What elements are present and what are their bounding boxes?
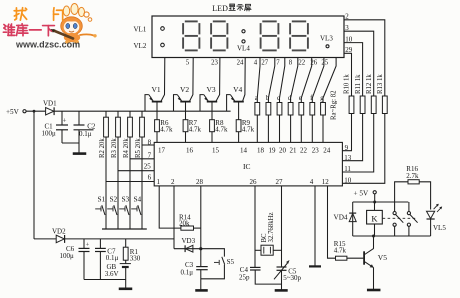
- svg-text:25: 25: [144, 162, 152, 170]
- svg-text:4.7k: 4.7k: [334, 247, 347, 255]
- ground for pin 4: [309, 265, 321, 267]
- capacitor C7: [99, 239, 101, 248]
- resistor Rg 82 segment g: [323, 58, 336, 103]
- svg-text:S2: S2: [109, 195, 117, 204]
- svg-text:12: 12: [322, 178, 330, 186]
- indicator VL2: [161, 43, 165, 47]
- svg-text:3.6V: 3.6V: [105, 270, 119, 278]
- svg-text:4.7k: 4.7k: [160, 126, 173, 134]
- wire +5V branch down to VD2: [33, 111, 35, 239]
- svg-text:15: 15: [212, 147, 220, 155]
- svg-text:g: g: [320, 95, 324, 102]
- svg-text:R5 20k: R5 20k: [135, 138, 142, 158]
- svg-text:+: +: [63, 118, 67, 125]
- svg-text:V5: V5: [378, 253, 387, 262]
- svg-text:25: 25: [321, 60, 328, 67]
- svg-text:S3: S3: [121, 195, 129, 204]
- wire relay bottom rail: [353, 235, 431, 237]
- svg-text:0.1μ: 0.1μ: [181, 268, 194, 276]
- svg-text:VD1: VD1: [43, 100, 57, 108]
- resistor R14 20k: [181, 226, 194, 230]
- svg-text:+5V: +5V: [6, 108, 20, 116]
- switch common rail: [102, 228, 147, 230]
- wire display pin to V1 collector: [161, 58, 165, 102]
- resistor R10 1k: [349, 96, 354, 114]
- svg-text:18: 18: [257, 147, 265, 155]
- svg-text:19: 19: [269, 147, 277, 155]
- svg-text:VL3: VL3: [320, 35, 333, 43]
- capacitor C2: [78, 111, 80, 125]
- svg-text:100μ: 100μ: [42, 129, 57, 137]
- wire R3 column to IC pin: [117, 137, 119, 229]
- resistor R3 20k: [117, 111, 119, 117]
- svg-text:V3: V3: [207, 85, 216, 94]
- svg-text:22: 22: [298, 60, 305, 67]
- svg-text:LED: LED: [212, 4, 228, 13]
- relay coil K: [367, 210, 383, 224]
- resistor R9 4.7k: [238, 102, 240, 120]
- wire IC pin 28 down: [200, 186, 202, 249]
- switch S5: [201, 249, 225, 257]
- svg-text:+: +: [86, 242, 90, 249]
- ground for C3: [195, 289, 208, 292]
- wire R7 to IC: [185, 132, 187, 143]
- resistor R4 20k: [129, 111, 131, 117]
- resistor R12 1k: [371, 96, 376, 114]
- wire R5 column to IC pin: [141, 137, 143, 229]
- svg-text:4: 4: [310, 178, 314, 186]
- svg-text:24: 24: [237, 60, 244, 67]
- resistor R5 20k: [141, 111, 143, 117]
- LED VL5: [427, 211, 435, 218]
- svg-text:VL5: VL5: [433, 224, 446, 232]
- resistor Rb 82 segment b: [268, 58, 274, 103]
- resistor Re 82 segment e: [301, 58, 311, 103]
- svg-text:100μ: 100μ: [60, 252, 75, 260]
- svg-text:c: c: [277, 95, 280, 102]
- svg-text:IC: IC: [243, 162, 251, 171]
- resistor R6 4.7k: [156, 102, 158, 120]
- svg-text:4.7k: 4.7k: [189, 126, 202, 134]
- svg-text:R10 1k: R10 1k: [344, 74, 351, 94]
- svg-text:V4: V4: [233, 85, 242, 94]
- svg-text:BC: BC: [261, 233, 268, 243]
- indicator VL1: [161, 27, 165, 31]
- wire +5V to VD1: [26, 110, 45, 112]
- svg-text:4.7k: 4.7k: [242, 126, 255, 134]
- svg-text:8: 8: [289, 60, 293, 67]
- svg-text:14: 14: [240, 147, 248, 155]
- svg-text:V2: V2: [180, 85, 189, 94]
- watermark orange text: [14, 8, 26, 20]
- svg-text:VD2: VD2: [52, 228, 66, 236]
- wire IC pin 1 to R14: [159, 186, 181, 228]
- colon indicator VL4: [242, 30, 245, 33]
- svg-text:330: 330: [130, 255, 141, 263]
- svg-text:S1: S1: [97, 195, 105, 204]
- svg-text:1: 1: [157, 178, 161, 186]
- battery GB 3.6V: [125, 260, 127, 263]
- wire R2 column to IC pin: [105, 137, 107, 229]
- svg-text:32.768kHz: 32.768kHz: [268, 212, 275, 242]
- svg-text:R4 20k: R4 20k: [123, 138, 130, 158]
- capacitor C3: [200, 249, 202, 267]
- svg-text:24: 24: [323, 147, 331, 155]
- wire display pin to V4 collector: [243, 58, 246, 102]
- svg-text:8: 8: [148, 139, 152, 147]
- svg-text:VD4: VD4: [334, 213, 348, 221]
- svg-text:VD3: VD3: [182, 237, 196, 245]
- svg-text:+ 5V: + 5V: [354, 189, 369, 197]
- svg-text:VL2: VL2: [134, 42, 147, 50]
- svg-text:16: 16: [186, 147, 194, 155]
- display digit 1: [185, 20, 198, 22]
- wire R13 to IC: [342, 114, 384, 184]
- wire R10 to IC: [342, 114, 351, 151]
- svg-text:2.7k: 2.7k: [406, 172, 419, 180]
- wire display pin to V3 collector: [216, 58, 220, 102]
- svg-text:4.7k: 4.7k: [215, 126, 228, 134]
- relay contact 1: [394, 202, 396, 211]
- svg-text:R12 1k: R12 1k: [366, 74, 373, 94]
- crystal BC 32.768kHz: [255, 249, 261, 251]
- svg-text:K: K: [371, 213, 378, 223]
- capacitor C6: [83, 239, 85, 248]
- display digit 3: [262, 20, 276, 22]
- svg-text:b: b: [266, 95, 270, 102]
- wire C1 bottom to C2 bottom: [62, 142, 79, 144]
- svg-text:28: 28: [196, 178, 204, 186]
- wire GB to ground: [125, 267, 127, 288]
- svg-text:R3 20k: R3 20k: [111, 138, 118, 158]
- svg-text:23: 23: [312, 147, 320, 155]
- svg-text:20: 20: [279, 147, 287, 155]
- resistor R13 1k: [382, 96, 387, 114]
- display digit 2: [213, 20, 226, 22]
- svg-text:23: 23: [211, 60, 218, 67]
- ground for GB: [119, 287, 133, 290]
- svg-text:5~30p: 5~30p: [283, 274, 301, 282]
- svg-text:7: 7: [148, 151, 152, 159]
- wire IC pin 26 down: [254, 186, 256, 267]
- wire R6 to IC: [156, 132, 158, 143]
- trimmer capacitor C5 5-30p: [277, 266, 287, 268]
- svg-text:4: 4: [254, 60, 258, 67]
- svg-text:20k: 20k: [179, 220, 190, 228]
- IC U1 box: [154, 142, 342, 186]
- wire C5 to ground: [281, 270, 283, 289]
- svg-text:VL1: VL1: [134, 25, 147, 33]
- ground for C1 C2: [73, 152, 87, 155]
- svg-text:7: 7: [276, 60, 280, 67]
- wire C6 C7 ground rail: [84, 279, 126, 281]
- svg-text:0.1μ: 0.1μ: [79, 130, 92, 138]
- svg-text:d: d: [288, 95, 292, 102]
- svg-text:a: a: [255, 95, 258, 102]
- svg-text:VL4: VL4: [237, 45, 250, 53]
- resistor R15 4.7k: [336, 256, 347, 260]
- svg-text:27: 27: [276, 178, 284, 186]
- wire VD2 rail: [65, 238, 174, 240]
- wire relay top rail: [353, 201, 409, 203]
- svg-text:22: 22: [300, 147, 308, 155]
- wire display pin to V2 collector: [190, 58, 194, 102]
- resistor Rf 82 segment f: [312, 58, 324, 103]
- display digit 4: [292, 20, 306, 22]
- svg-text:R2 20k: R2 20k: [99, 138, 106, 158]
- resistor R8 4.7k: [211, 102, 213, 120]
- svg-text:Ra~Rg: 82: Ra~Rg: 82: [331, 90, 338, 120]
- wire IC pin 27 down: [281, 186, 283, 267]
- svg-text:V1: V1: [152, 85, 161, 94]
- capacitor C1: [61, 111, 63, 125]
- wire IC pin 2 down: [173, 186, 175, 249]
- svg-text:0.1μ: 0.1μ: [106, 254, 119, 262]
- resistor Rd 82 segment d: [291, 58, 298, 103]
- wire IC pin 4 to ground: [314, 186, 316, 266]
- watermark logo dzsc: [51, 4, 97, 44]
- svg-text:5: 5: [186, 60, 190, 67]
- svg-text:27: 27: [261, 60, 268, 67]
- ground for C4 C5: [275, 289, 288, 292]
- wire R11 to IC: [342, 114, 362, 161]
- resistor R1 330: [125, 239, 127, 247]
- wire +5V rail: [54, 110, 231, 112]
- wire R8 to IC: [211, 132, 213, 143]
- watermark red text: [3, 24, 14, 35]
- wire R9 to IC: [238, 132, 240, 143]
- svg-text:6: 6: [148, 174, 152, 182]
- relay contact 2: [408, 202, 410, 211]
- svg-text:R11 1k: R11 1k: [355, 74, 362, 94]
- svg-text:R13 1k: R13 1k: [377, 74, 384, 94]
- mechanical link dashed: [383, 217, 417, 219]
- ground for V5: [367, 289, 381, 292]
- svg-text:17: 17: [158, 147, 166, 155]
- svg-text:S5: S5: [227, 258, 235, 266]
- LED display panel box: [152, 16, 344, 58]
- svg-text:21: 21: [290, 147, 298, 155]
- wire R12 to IC: [342, 114, 373, 173]
- svg-text:25p: 25p: [239, 273, 250, 281]
- svg-text:26: 26: [250, 178, 258, 186]
- svg-text:www.dzsc.com: www.dzsc.com: [15, 40, 80, 50]
- wire IC pin 12 to R15: [328, 186, 336, 258]
- svg-text:S4: S4: [133, 195, 141, 204]
- svg-text:e: e: [299, 95, 302, 102]
- wire R4 column to IC pin: [129, 137, 131, 229]
- svg-text:2: 2: [171, 178, 175, 186]
- resistor R7 4.7k: [185, 102, 187, 120]
- resistor Ra 82 segment a: [257, 58, 260, 103]
- wire C4 to ground rail: [255, 270, 281, 284]
- resistor Rc 82 segment c: [280, 58, 285, 103]
- capacitor C4 25p: [250, 266, 261, 268]
- resistor R11 1k: [360, 96, 365, 114]
- resistor R2 20k: [105, 111, 107, 117]
